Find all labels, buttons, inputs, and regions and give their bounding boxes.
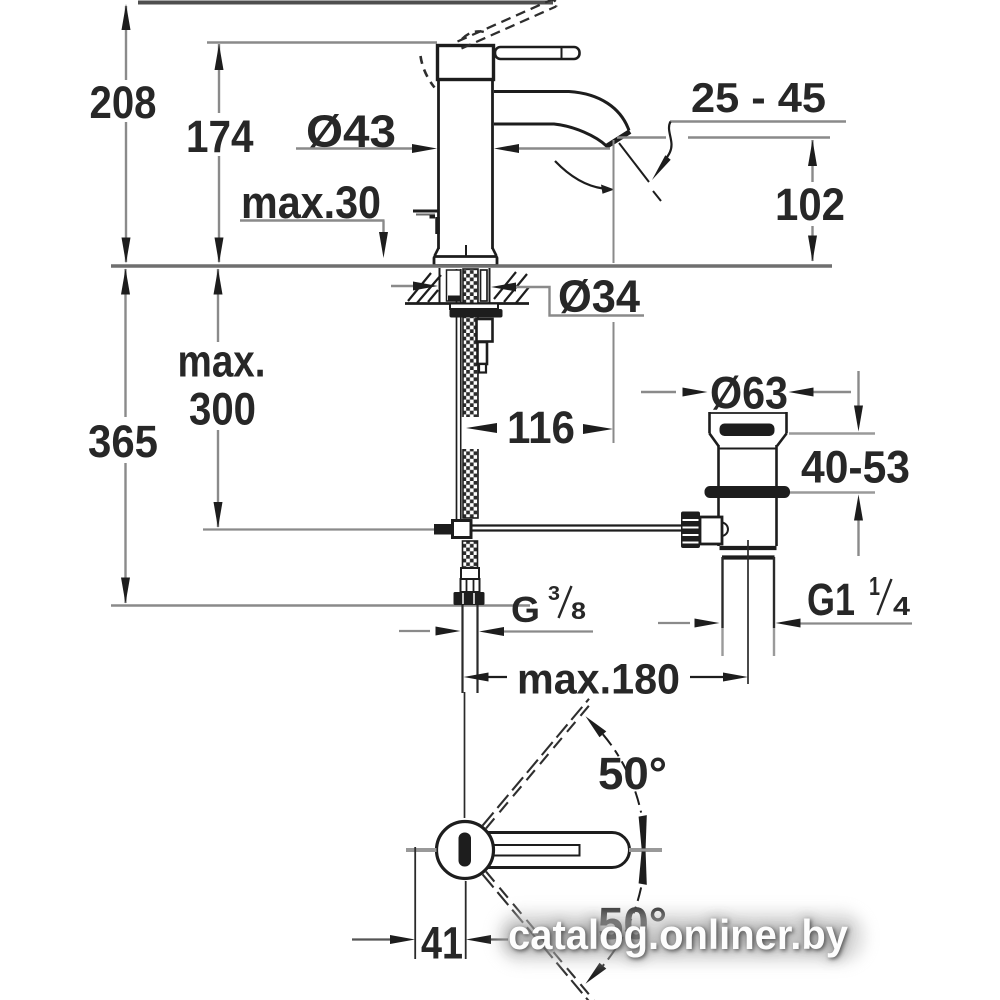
horizontal pop-up rod line 2 — [471, 529, 683, 531]
drain tailpipe left wall — [721, 557, 723, 628]
hose G3/8 nut — [454, 592, 485, 605]
dim 41 left tail — [352, 938, 392, 940]
spout tip extension line lower — [613, 322, 615, 443]
shank mounting nut — [450, 309, 503, 318]
dim G3/8 underline — [504, 630, 593, 632]
dim max.180 left arrow — [464, 673, 489, 682]
dim Ø43 right tail — [519, 147, 610, 149]
drain plug cap — [720, 424, 775, 437]
drain lower body left wall — [717, 498, 720, 546]
drain rubber washer — [705, 486, 791, 498]
raised lever dashed end cap — [551, 0, 557, 6]
shaft end bar — [448, 296, 460, 302]
dim 174 bottom arrow — [215, 238, 224, 264]
dim max.300 bottom arrow — [214, 502, 223, 528]
svg-text:25 - 45: 25 - 45 — [691, 74, 826, 121]
hole inner tube right — [481, 270, 488, 301]
svg-text:208: 208 — [90, 77, 157, 128]
svg-text:1: 1 — [869, 571, 880, 601]
counter hatching left — [408, 273, 441, 303]
dim max.300 top arrow — [214, 269, 223, 295]
faucet lever (side view) — [495, 47, 580, 59]
supply tube wall left — [461, 605, 463, 693]
dim Ø43 leader underline — [296, 147, 414, 149]
spout tip extension line upper — [613, 140, 615, 263]
max300 leader line to rod — [203, 528, 434, 530]
svg-text:41: 41 — [421, 918, 463, 969]
dim 116 right arrow — [583, 424, 613, 434]
drain flange chamfer left — [710, 434, 719, 447]
faucet body right wall — [491, 80, 494, 249]
pop-up housing tip — [479, 364, 486, 373]
faucet body left wall — [437, 80, 440, 249]
drain seat line 1 — [720, 546, 777, 550]
hose connector sleeve — [461, 568, 479, 579]
drain lower body right wall — [775, 498, 778, 546]
drain flange chamfer right — [777, 434, 787, 447]
stream direction tick 1 — [619, 143, 649, 182]
dim 102 label — [770, 182, 854, 226]
svg-text:catalog.onliner.by: catalog.onliner.by — [508, 911, 849, 958]
shank washer — [450, 304, 498, 310]
faucet handle block — [438, 46, 494, 80]
svg-text:300: 300 — [189, 384, 256, 435]
lower 50 arc — [603, 887, 641, 965]
rotated lever dashed upper line 1 — [483, 699, 589, 826]
raised lever dashed outline line 2 — [462, 7, 557, 49]
upper 50 arc — [603, 734, 641, 812]
pop-up rod stub in body — [465, 245, 467, 256]
dim G3/8 left arrow — [436, 627, 461, 636]
drain upper body left wall — [717, 445, 720, 487]
dim 174 vertical line — [218, 44, 220, 262]
svg-text:Ø34: Ø34 — [558, 271, 640, 322]
drain seat line 2 — [722, 555, 775, 559]
pivot dashed arc left of block — [421, 56, 435, 88]
dim Ø63 left tail — [641, 391, 676, 393]
drain centerline — [747, 540, 749, 684]
dim 41 right tail — [491, 938, 508, 940]
rod left end fitting — [434, 524, 453, 535]
dim Ø43 left arrow — [412, 144, 437, 153]
lower 50 arc arrowhead at centerline — [639, 852, 647, 885]
dim 365 label — [82, 417, 167, 463]
dim 25-45 leader arrowhead — [652, 155, 671, 180]
dim 25-45 leader squiggle — [665, 122, 672, 161]
drain ball joint arc — [722, 523, 728, 537]
dim Ø34 left arrow tail — [391, 285, 413, 287]
dim Ø63 left arrow — [683, 388, 708, 397]
faucet base flare left — [435, 248, 439, 256]
water flow arc arrow — [555, 161, 603, 189]
svg-text:8: 8 — [571, 598, 586, 625]
dim 365 vertical line — [124, 269, 126, 603]
spout level reference line — [617, 136, 666, 138]
dim G3/8 left tail — [399, 630, 430, 632]
dim max.30 underline — [240, 219, 385, 221]
dim max.300 label — [172, 342, 272, 430]
dim 41 right extension line — [465, 881, 467, 959]
svg-text:3: 3 — [548, 583, 560, 605]
dim 40-53 upper stem — [857, 371, 859, 407]
pop-up housing lower — [478, 342, 488, 364]
lower 50 arc arrowhead bottom — [586, 963, 607, 984]
pop-up housing upper — [477, 319, 493, 342]
upper 50 arc arrowhead at centerline — [639, 815, 647, 848]
top view handle outline — [487, 833, 630, 868]
dim Ø63 right tail — [814, 391, 852, 393]
drain flange left wall — [708, 412, 711, 434]
drain upper body right wall — [775, 445, 778, 487]
pop-up rod vertical line 2 — [460, 269, 462, 521]
dim max.300 vertical line — [217, 269, 219, 527]
lever end cap line — [561, 48, 563, 58]
mounting hole wall right — [489, 268, 491, 303]
drain flange right wall — [785, 412, 788, 434]
dim 208 label — [85, 80, 161, 122]
dim 25-45 underline — [670, 120, 846, 122]
temperature limit tab on body — [413, 210, 438, 213]
spout bottom outline — [494, 124, 607, 146]
drain flange top line — [709, 412, 787, 414]
dim 208 vertical line — [125, 6, 127, 262]
drain tailpipe right wall — [773, 557, 775, 628]
dim 41 left extension line — [414, 847, 416, 959]
watermark halo band — [497, 911, 865, 963]
dim 40-53 lower stem — [857, 521, 859, 557]
svg-text:Ø63: Ø63 — [710, 368, 788, 419]
dim 208 bottom arrow — [122, 238, 131, 264]
dim 41 left arrow — [390, 935, 415, 944]
dim Ø34 left arrow — [413, 282, 438, 291]
dim 40-53 upper arrow — [854, 406, 863, 432]
rod coupler square — [453, 521, 472, 538]
svg-text:102: 102 — [775, 179, 845, 230]
countertop line — [111, 264, 832, 267]
svg-text:max.180: max.180 — [517, 656, 680, 704]
dim Ø63 right arrow — [789, 388, 814, 397]
cartridge shaft in hole — [447, 270, 461, 301]
faucet base plate — [434, 257, 497, 266]
top view centerline right — [629, 848, 662, 852]
svg-text:50°: 50° — [598, 748, 667, 799]
top view cartridge pill — [459, 833, 472, 867]
drain collar line — [719, 448, 777, 450]
spout aerator face — [606, 132, 631, 148]
dim max.30 down arrow — [379, 232, 388, 258]
dim G3/8 right arrow — [479, 627, 504, 636]
40-53 upper reference line — [789, 432, 875, 435]
stream direction tick 2 — [653, 191, 661, 201]
dim G1 1/4 left arrow — [695, 619, 720, 628]
raised lever dashed outline line 1 — [458, 0, 552, 42]
braided hose upper — [463, 269, 478, 518]
rotated lever dashed lower line 1 — [483, 874, 598, 1000]
dim 365 bottom arrow — [121, 578, 130, 604]
svg-text:max.: max. — [178, 336, 266, 387]
counter hatching right — [494, 272, 529, 303]
svg-text:365: 365 — [88, 416, 158, 467]
dim 208 top arrow — [122, 4, 131, 30]
dim Ø34 right arrow — [491, 283, 516, 292]
svg-text:116: 116 — [507, 402, 575, 453]
dim max.180 right arrow — [690, 676, 725, 678]
rotated lever dashed lower line 2 — [486, 872, 601, 1000]
supply tube wall right — [476, 605, 478, 693]
mounting hole wall left — [439, 268, 441, 303]
dim Ø34 leader — [516, 287, 644, 316]
dim 365 top arrow — [121, 269, 130, 295]
dim 174 reference line at y43 — [207, 41, 437, 43]
white halo for 116 arrow — [462, 417, 481, 449]
pop-up rod vertical line 1 — [456, 269, 458, 521]
dim 174 top arrow — [215, 44, 224, 70]
counter underside line — [405, 302, 529, 305]
svg-text:G1: G1 — [807, 574, 855, 625]
upper 50 arc arrowhead top — [586, 716, 607, 737]
top view circle (faucet body) — [437, 822, 494, 879]
dim max.30 leader drop — [382, 221, 384, 235]
braided hose lower — [463, 541, 478, 568]
dim 365 bottom reference line — [111, 604, 530, 606]
faucet base flare right — [493, 248, 497, 256]
spout top outline — [494, 92, 629, 131]
dim G1 1/4 left tail — [658, 622, 690, 624]
svg-text:4: 4 — [893, 591, 911, 621]
dim 116 left arrow — [466, 423, 497, 433]
dim 40-53 lower arrow — [854, 495, 863, 521]
dim 102 top arrow — [808, 140, 817, 166]
svg-text:G: G — [511, 589, 540, 630]
faucet centerline extension — [464, 692, 466, 818]
40-53 lower reference line — [790, 491, 875, 494]
motion dash above block — [462, 31, 484, 39]
top border reference line — [138, 1, 553, 5]
svg-text:40-53: 40-53 — [801, 442, 910, 493]
dim 102 bottom arrow — [808, 236, 817, 262]
top view handle slot — [493, 845, 580, 856]
dim G1 1/4 underline — [801, 622, 913, 624]
top view centerline left — [406, 848, 437, 852]
dim Ø43 right arrow — [494, 144, 519, 153]
hose hex nut top — [461, 579, 480, 592]
svg-text:174: 174 — [186, 111, 254, 162]
dim 41 right arrow — [466, 935, 491, 944]
dim 102 vertical line — [811, 140, 813, 261]
dim G1 1/4 right arrow — [776, 619, 801, 628]
dim 174 label — [181, 113, 258, 156]
horizontal pop-up rod line 1 — [471, 524, 683, 526]
drain knurled knob — [681, 512, 700, 549]
rotated lever dashed upper line 2 — [486, 702, 592, 829]
drain rod link housing — [700, 517, 722, 544]
